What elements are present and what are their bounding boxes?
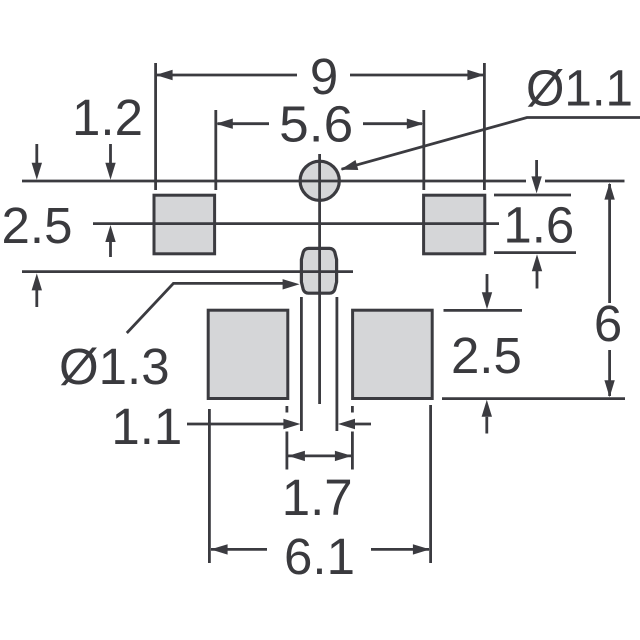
pad lower-right [353,310,433,398]
line right of lower pads top [444,309,523,312]
octagon extension lines [301,297,337,431]
line through upper pads [93,222,499,225]
dimension 9 [156,48,485,190]
svg-text:1.2: 1.2 [72,89,143,146]
svg-text:1.1: 1.1 [111,398,182,455]
svg-text:Ø1.3: Ø1.3 [59,338,170,395]
pad lower-left [208,310,288,398]
svg-text:Ø1.1: Ø1.1 [526,60,633,117]
svg-text:2.5: 2.5 [451,327,522,384]
svg-text:6.1: 6.1 [284,528,355,585]
dimension 1.6 [494,160,576,289]
line right of lower pads bottom [442,397,625,400]
leader and label diameter 1.3 [59,279,300,395]
svg-text:6: 6 [594,295,622,352]
hole octagon 1.3 [301,248,336,293]
long line through circle center [22,180,625,183]
dimension 2.5 left [2,144,73,307]
svg-text:1.7: 1.7 [282,469,353,526]
pad upper-right [424,195,485,254]
svg-text:2.5: 2.5 [2,197,73,254]
svg-text:1.6: 1.6 [503,197,574,254]
hole circle 1.1 [300,161,339,200]
centerline vertical [318,154,321,404]
leader and label diameter 1.1 [341,60,640,170]
line through octagon center [22,270,353,273]
dimension 1.7 [282,451,353,526]
dimension 1.1 [111,398,371,455]
pad inner edge extension lines [287,406,353,470]
pad outer edge extension lines [209,405,430,563]
dimension 5.6 [216,96,424,191]
svg-text:5.6: 5.6 [279,96,353,153]
dimension 2.5 lower-right [451,274,522,434]
dimension 1.2 [72,89,143,257]
dimension 6 [594,183,622,398]
pad upper-left [154,195,215,254]
dimension 6.1 [211,528,430,585]
